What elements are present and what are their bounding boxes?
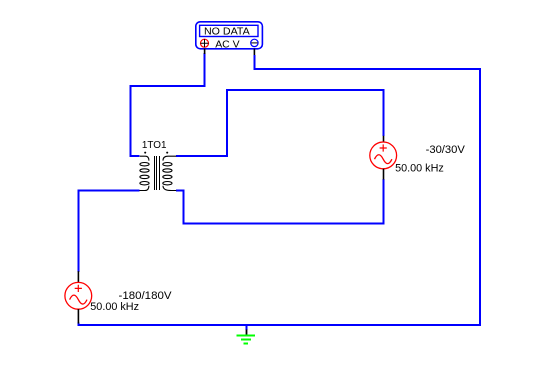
voltmeter + terminal xyxy=(200,39,208,47)
transformer T1 secondary winding xyxy=(163,156,176,190)
transformer T1 primary phase dot xyxy=(144,152,146,154)
wire from voltmeter + lead down-left to transformer primary top xyxy=(131,53,205,156)
svg-text:-30/30V: -30/30V xyxy=(426,144,466,156)
wire from right source bottom down-left to transformer secondary bottom xyxy=(176,179,383,224)
transformer T1 secondary phase dot xyxy=(166,152,168,154)
svg-text:1TO1: 1TO1 xyxy=(142,139,167,151)
svg-text:50.00 kHz: 50.00 kHz xyxy=(90,301,139,313)
svg-text:50.00 kHz: 50.00 kHz xyxy=(395,162,444,174)
voltmeter - lead stub xyxy=(253,49,255,55)
ground stub wire xyxy=(246,324,248,330)
AC source V2 bottom lead xyxy=(383,169,385,180)
svg-text:AC V: AC V xyxy=(215,39,239,51)
transformer T1 primary winding xyxy=(140,156,150,190)
wire from transformer primary bottom left to left source top xyxy=(78,191,139,272)
ground lead xyxy=(246,330,248,336)
AC source V1 body xyxy=(65,282,92,309)
svg-text:NO DATA: NO DATA xyxy=(204,26,250,38)
transformer T1 core xyxy=(155,156,160,190)
wire from voltmeter - lead right, down right side, bottom rail to left source xyxy=(78,55,480,325)
AC source V1 bottom lead xyxy=(77,309,79,323)
wire from transformer secondary top right up and to right source top xyxy=(176,90,384,156)
ground symbol xyxy=(237,336,256,344)
AC source V2 top lead xyxy=(383,136,385,142)
voltmeter U1 body xyxy=(196,22,263,49)
voltmeter - terminal xyxy=(251,39,258,46)
AC source V1 top lead xyxy=(77,271,79,282)
voltmeter + lead stub xyxy=(204,49,206,54)
AC source V2 body xyxy=(370,142,397,169)
